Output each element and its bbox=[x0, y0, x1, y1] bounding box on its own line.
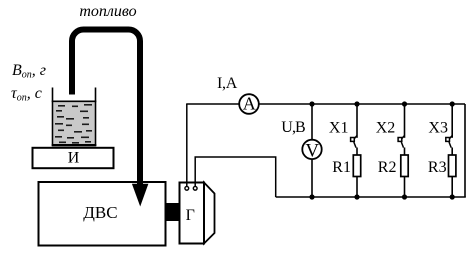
branch X3/R3 wires bbox=[451, 104, 453, 197]
top rail wire bbox=[186, 103, 239, 105]
junction node top X1 bbox=[354, 101, 359, 106]
wire from terminal 1 to top rail bbox=[186, 104, 188, 186]
generator box G (Г) bbox=[180, 183, 215, 244]
resistor R2 bbox=[401, 155, 408, 177]
junction node bottom R2 bbox=[402, 194, 407, 199]
junction node bottom V bbox=[309, 194, 314, 199]
ammeter A bbox=[239, 94, 259, 114]
voltmeter branch wires bbox=[311, 104, 313, 140]
resistor R3 bbox=[449, 155, 456, 177]
svg-text:V: V bbox=[305, 140, 319, 161]
liquid texture dashes bbox=[55, 104, 92, 144]
junction node bottom R3 bbox=[450, 194, 455, 199]
wire from terminal 2 to bottom rail bbox=[195, 157, 276, 197]
switch X2 bbox=[398, 136, 404, 148]
svg-text:R2: R2 bbox=[378, 159, 397, 176]
junction node top X3 bbox=[450, 101, 455, 106]
fuel tube bbox=[72, 30, 140, 185]
junction node bottom R1 bbox=[354, 194, 359, 199]
switch X1 bbox=[351, 136, 357, 148]
svg-text:τоп, с: τоп, с bbox=[11, 85, 42, 104]
svg-text:А: А bbox=[243, 94, 256, 114]
coupling shaft (black) bbox=[166, 203, 180, 221]
svg-text:R3: R3 bbox=[428, 159, 447, 176]
branch X1/R1 wires bbox=[356, 104, 358, 197]
resistor R1 bbox=[353, 155, 360, 177]
svg-text:топливо: топливо bbox=[79, 3, 136, 20]
junction node top V bbox=[309, 101, 314, 106]
engine box DVS (ДВС) bbox=[39, 182, 166, 246]
bottom rail wire bbox=[276, 196, 466, 198]
voltmeter V bbox=[302, 140, 321, 162]
terminal circles on generator bbox=[185, 186, 189, 190]
right edge wire bbox=[464, 104, 466, 197]
svg-text:ДВС: ДВС bbox=[83, 203, 117, 222]
stand box I (И) bbox=[33, 148, 114, 168]
switch X3 bbox=[446, 136, 452, 148]
svg-text:U,В: U,В bbox=[281, 119, 305, 136]
svg-text:R1: R1 bbox=[332, 159, 351, 176]
svg-text:И: И bbox=[68, 150, 80, 167]
beaker with fuel liquid bbox=[52, 88, 97, 147]
svg-text:X1: X1 bbox=[329, 119, 349, 136]
junction node top X2 bbox=[402, 101, 407, 106]
svg-text:X2: X2 bbox=[376, 119, 396, 136]
branch X2/R2 wires bbox=[404, 104, 406, 197]
svg-text:Г: Г bbox=[186, 207, 195, 224]
fuel arrow into engine bbox=[132, 184, 149, 207]
svg-text:I,А: I,А bbox=[217, 75, 238, 92]
svg-text:X3: X3 bbox=[428, 119, 448, 136]
